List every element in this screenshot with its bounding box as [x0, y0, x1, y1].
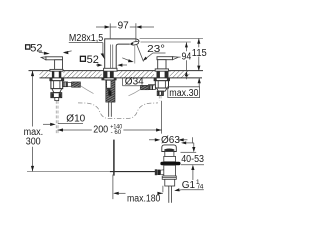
svg-text:- 60: - 60 [111, 129, 122, 136]
washbasin outline dash-dot [78, 103, 158, 119]
rod coupler at waste [155, 169, 164, 175]
dimension 97 (top) [96, 23, 154, 42]
svg-text:max.30: max.30 [169, 88, 199, 99]
spout body (centre) [105, 39, 139, 68]
svg-text:Ø63: Ø63 [161, 135, 180, 146]
water stream line at 23deg [137, 44, 144, 62]
lock nut [162, 176, 176, 179]
spout escutcheon plate [104, 68, 117, 71]
left supply pipe dashed (O10) [56, 101, 58, 134]
right valve outlet nipple and flex hose [129, 85, 156, 96]
svg-text:G1: G1 [182, 180, 196, 191]
svg-text:Ø34: Ø34 [125, 77, 144, 88]
dark flange band [160, 162, 180, 165]
svg-text:200: 200 [93, 125, 108, 136]
right valve handle [155, 57, 180, 72]
dimension 94 (right, deck to aerator) [141, 41, 191, 43]
svg-text:94: 94 [182, 52, 192, 63]
aerator at spout tip [130, 41, 139, 46]
dimension max.300 (left) [32, 71, 34, 127]
dimension 40-53 (waste height) [181, 137, 205, 180]
right supply pipe dashed [159, 95, 161, 100]
pop-up rod below shank [109, 102, 112, 117]
label square 52 (spout plate) [80, 56, 85, 61]
body [164, 165, 176, 176]
svg-text:max.180: max.180 [127, 194, 161, 205]
spout shank assembly below deck [102, 78, 116, 102]
pop-up waste drain body [160, 145, 180, 203]
threaded shanks inside deck holes [52, 71, 169, 77]
dimension max.30 (mounting thickness) [198, 78, 200, 87]
dimension max.180 (rod to waste) [113, 175, 163, 200]
svg-text:40-53: 40-53 [181, 154, 204, 165]
pop-up linkage vertical rod [113, 140, 115, 176]
dimension 115 (right, deck to spout top) [140, 37, 204, 39]
dimension 200 +140/-60 [58, 101, 162, 134]
cap [162, 145, 177, 152]
countertop deck hatched band [29, 71, 204, 79]
left valve handle [41, 57, 63, 71]
left valve body below deck [50, 78, 64, 101]
left valve outlet nipple and flex hose [63, 82, 94, 94]
label O34 (deck hole) [122, 78, 124, 86]
svg-text:Ø10: Ø10 [66, 114, 85, 125]
upper body [164, 156, 176, 161]
label square 52 (left handle) [26, 45, 30, 49]
dimension O63 (waste cap) [149, 139, 187, 141]
svg-text:/4: /4 [198, 183, 204, 190]
reference line to max.300 [27, 171, 110, 173]
svg-text:300: 300 [26, 136, 41, 147]
right valve body below deck [154, 78, 169, 95]
tailpipe [165, 179, 175, 186]
svg-text:97: 97 [118, 21, 130, 32]
flow direction arrow [122, 58, 131, 61]
pop-up horizontal rod to waste [110, 171, 157, 173]
svg-text:52: 52 [87, 54, 99, 66]
neck [165, 152, 174, 157]
svg-text:115: 115 [192, 48, 207, 59]
